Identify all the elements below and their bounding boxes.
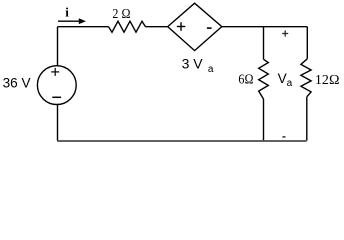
wire diamond to right [222,26,307,28]
minus in diamond [207,27,212,29]
wire bottom [57,140,306,142]
wire 6ohm branch bottom [263,99,265,141]
resistor R 6ohm [259,59,269,99]
wire below source [57,105,59,141]
svg-text:a: a [287,78,293,89]
wire 12ohm branch bottom [306,97,308,141]
wire resistor to diamond [146,26,168,28]
wire top-left vertical [57,27,59,66]
minus right branch [282,136,285,138]
wire 6ohm branch top [263,27,265,60]
svg-text:36 V: 36 V [3,76,31,91]
wire top segment left [58,26,109,28]
plus right branch [282,30,288,36]
svg-text:i: i [65,4,69,19]
svg-text:12Ω: 12Ω [315,73,340,88]
svg-text:a: a [208,64,214,75]
resistor R 2ohm [109,21,146,32]
voltage source VS 36V circle [37,66,76,105]
svg-text:V: V [278,71,287,86]
dependent source U 3Va diamond [168,3,222,50]
svg-text:6Ω: 6Ω [238,73,253,88]
svg-text:2 Ω: 2 Ω [112,6,130,21]
minus in source [52,96,61,98]
svg-text:3 V: 3 V [182,56,204,72]
plus in diamond [177,22,186,31]
plus in source [51,68,59,76]
current arrow i [58,18,86,24]
resistor R 12ohm [301,59,311,97]
wire 12ohm branch top [306,27,308,59]
